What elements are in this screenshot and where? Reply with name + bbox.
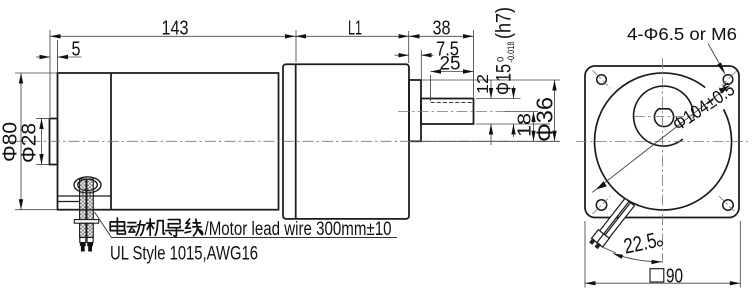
12 arrows (outside) [489, 88, 493, 99]
Phi28 dim line [41, 119, 43, 165]
gearbox seam [295, 64, 297, 219]
gearbox circle (gap where dia text crosses) [595, 73, 732, 210]
corner holes [596, 75, 733, 211]
svg-text:/Motor lead wire 300mm±10: /Motor lead wire 300mm±10 [205, 219, 392, 240]
Phi80 dim line [20, 73, 22, 210]
Phi36 arrows [552, 80, 556, 91]
38 arrows [409, 34, 420, 38]
svg-text:Φ15: Φ15 [493, 64, 516, 95]
18 dim line [533, 112, 535, 142]
right side ext lines [421, 79, 560, 81]
motor end-bell seam [110, 73, 112, 210]
svg-text:38: 38 [433, 17, 451, 39]
connector tips [589, 238, 596, 245]
25 arrows [431, 69, 442, 73]
lead wires (hatched) upper part [80, 179, 94, 222]
front-view wires [592, 198, 635, 247]
svg-text:(h7): (h7) [493, 7, 516, 39]
arrowheads [19, 34, 557, 210]
svg-text:L1: L1 [348, 18, 362, 40]
output shaft (Phi15) [421, 99, 474, 125]
svg-text:0: 0 [496, 57, 507, 62]
svg-text:25: 25 [440, 54, 461, 75]
Phi28 ext lines [36, 118, 50, 120]
end cap bottom step lines [58, 195, 111, 197]
svg-text:-0.018: -0.018 [506, 42, 517, 63]
dim line 143 / L1 / 38 [50, 35, 296, 37]
leader line to wire note [95, 212, 398, 238]
L1 arrows [296, 34, 307, 38]
hole diagonal centermarks [593, 71, 738, 215]
cable grommet [74, 177, 101, 193]
22.5 deg angle arc [613, 254, 662, 262]
ext line gearbox right face [408, 31, 410, 63]
M6 leader [708, 44, 724, 72]
Phi36 dim line [554, 80, 556, 141]
Phi15 arrows (outside) [511, 88, 515, 99]
svg-text:12: 12 [475, 74, 492, 94]
ext line motor front face [57, 40, 59, 72]
svg-text:4-Φ6.5 or M6: 4-Φ6.5 or M6 [627, 24, 737, 44]
connector 2 [597, 234, 609, 247]
dim line 25 [431, 71, 474, 73]
crimp barrels [80, 238, 86, 243]
char XIAN [185, 219, 203, 236]
connector 1 [592, 230, 604, 243]
svg-text:Φ36: Φ36 [532, 97, 558, 142]
extension of wire axis [601, 247, 616, 254]
gearbox body [283, 64, 409, 219]
ext line left face [49, 30, 51, 117]
Phi80 ext lines [15, 72, 58, 74]
char JI [146, 219, 164, 236]
143 arrows [50, 34, 61, 38]
shaft flat (hidden line) [431, 102, 474, 104]
wire pins [80, 243, 86, 252]
Phi28 arrows [39, 119, 43, 130]
output boss circle (with gap for text) [634, 86, 694, 146]
Phi15 dim line [513, 86, 515, 99]
shaft centerline [398, 111, 510, 113]
18 arrows [531, 112, 535, 123]
motor centerline [10, 140, 558, 142]
wire note: hand-drawn CJK characters [110, 218, 203, 236]
ext line boss face [420, 50, 422, 79]
lead wires (hatched) lower part [80, 223, 94, 237]
square-90 dimension [585, 221, 740, 288]
dim line 5 [36, 56, 50, 58]
Phi104 dimension line [592, 86, 729, 193]
view centerlines [576, 58, 748, 263]
motor body [58, 73, 279, 210]
wire clamp collar [74, 220, 98, 224]
char DONG [127, 221, 145, 236]
dim line 7.5 [395, 54, 410, 56]
5 arrows (outside) [40, 55, 51, 59]
Phi80 arrows [19, 73, 23, 84]
svg-text:90: 90 [666, 265, 683, 288]
svg-text:Φ28: Φ28 [19, 123, 41, 163]
text Phi15 tol (rotated) [493, 7, 518, 95]
square symbol [650, 269, 664, 282]
output boss (Phi36) [409, 80, 421, 141]
svg-text:143: 143 [162, 17, 189, 39]
ext line at gearbox joint top [295, 30, 297, 62]
svg-text:5: 5 [72, 39, 81, 61]
char DAO [165, 220, 183, 237]
ext line flat start [430, 75, 432, 101]
shaft circle with flat [654, 109, 673, 127]
flange square [585, 66, 739, 218]
svg-text:UL Style 1015,AWG16: UL Style 1015,AWG16 [110, 244, 258, 265]
char DIAN [110, 218, 125, 234]
rear boss (Phi28) [50, 119, 58, 165]
12 dim line [490, 80, 492, 99]
ext line shaft end top [473, 30, 475, 97]
7.5 arrows (outside) [399, 53, 410, 57]
